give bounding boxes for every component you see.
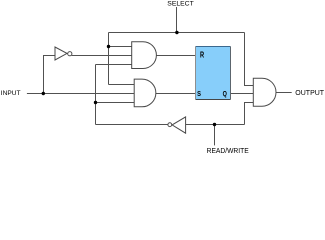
wire select top rail bbox=[109, 32, 245, 34]
wire AND1 input1 bbox=[109, 46, 132, 48]
wire not-readwrite riser bbox=[95, 65, 97, 125]
junction AND1 input1 bbox=[107, 45, 110, 48]
wire inverter U2 output run bbox=[96, 124, 168, 126]
latch U3 (S-R flip-flop box) bbox=[196, 47, 231, 100]
inverter U2 bbox=[168, 117, 186, 133]
wire AND2 input1 bbox=[109, 84, 135, 86]
wire AND1 output to R bbox=[156, 55, 195, 57]
wire select to AND3 input1 bbox=[245, 33, 254, 86]
junction INPUT tap bbox=[42, 92, 45, 95]
junction select/top rail bbox=[175, 31, 178, 34]
wire AND2 output to S bbox=[156, 93, 196, 95]
svg-text:Q: Q bbox=[223, 91, 227, 99]
svg-text:READ/WRITE: READ/WRITE bbox=[207, 148, 249, 155]
wire OUTPUT lead bbox=[276, 92, 292, 94]
svg-text:INPUT: INPUT bbox=[1, 90, 21, 97]
wire select left drop bbox=[108, 33, 110, 85]
wire inverter U1 feed bbox=[44, 56, 55, 94]
node SELECT stem wire bbox=[176, 7, 178, 33]
wire READ/WRITE stem bbox=[214, 125, 216, 146]
wire readwrite to AND3 input3 bbox=[245, 103, 254, 125]
wire Q to AND3 bbox=[230, 93, 253, 95]
inverter U1 bbox=[55, 47, 72, 60]
and-gate G2 bbox=[134, 79, 156, 107]
junction AND2 input3 bbox=[94, 101, 97, 104]
and-gate G3 bbox=[253, 78, 276, 106]
wire AND2 input3 bbox=[96, 102, 135, 104]
wire AND1 input3 bbox=[96, 64, 132, 66]
wire inverter U1 output bbox=[72, 55, 132, 57]
wire INPUT rail bbox=[27, 93, 134, 95]
svg-text:R: R bbox=[200, 52, 204, 60]
wire readwrite rail bbox=[186, 124, 245, 126]
and-gate G1 bbox=[132, 42, 157, 69]
junction READ/WRITE tap bbox=[213, 123, 216, 126]
svg-text:S: S bbox=[197, 91, 201, 99]
svg-text:SELECT: SELECT bbox=[167, 1, 193, 8]
svg-text:OUTPUT: OUTPUT bbox=[295, 90, 325, 97]
